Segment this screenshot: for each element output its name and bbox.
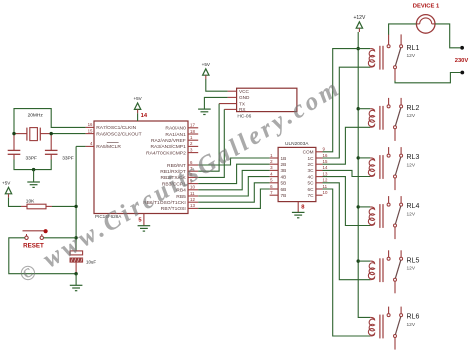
wire 3C to RL3 coil xyxy=(323,170,371,176)
relay RL3 12V xyxy=(368,147,419,190)
wire U1 RB to U2 inputs xyxy=(198,158,269,208)
power +5V U1 pin14 xyxy=(133,96,147,121)
relay RL6 12V xyxy=(368,307,419,350)
switch RESET xyxy=(23,229,48,250)
svg-text:HC-06: HC-06 xyxy=(237,114,251,120)
resistor R1 10K xyxy=(21,199,52,209)
svg-text:RA3/AN3/CMP1: RA3/AN3/CMP1 xyxy=(150,144,186,150)
lamp DEVICE 1 xyxy=(413,4,440,34)
svg-text:RL2: RL2 xyxy=(407,105,420,112)
svg-text:15: 15 xyxy=(88,128,93,133)
svg-text:VCC: VCC xyxy=(239,89,250,94)
watermark xyxy=(14,74,347,289)
node OSC junctions xyxy=(12,132,53,135)
wire R1 to MCLR column xyxy=(52,205,76,207)
svg-text:33PF: 33PF xyxy=(26,155,38,161)
wire RESET left loop xyxy=(9,238,76,274)
svg-text:6B: 6B xyxy=(281,187,287,192)
wire pin4 MCLR xyxy=(76,145,86,147)
wire OSC1 loop to pin16 xyxy=(14,109,86,134)
wire 4C to RL4 coil xyxy=(323,177,371,226)
svg-text:12V: 12V xyxy=(407,162,416,168)
ground crystal xyxy=(27,170,40,188)
node 230V terminals xyxy=(455,46,469,75)
svg-text:5C: 5C xyxy=(308,181,315,186)
wire lamp to RL1 NO contact xyxy=(389,24,417,35)
svg-text:12V: 12V xyxy=(407,211,416,217)
wire +12V rail xyxy=(357,32,371,317)
svg-text:RL4: RL4 xyxy=(407,203,420,210)
svg-text:+5V: +5V xyxy=(2,181,11,186)
svg-text:3: 3 xyxy=(270,165,273,170)
svg-text:3B: 3B xyxy=(281,168,287,173)
svg-text:5B: 5B xyxy=(281,181,287,186)
svg-text:4: 4 xyxy=(90,141,93,146)
svg-text:TX: TX xyxy=(239,101,246,106)
wire caps to ground rail xyxy=(14,160,51,172)
svg-text:RA4/T0CKI/CMP2: RA4/T0CKI/CMP2 xyxy=(146,150,186,156)
svg-text:12: 12 xyxy=(323,178,328,183)
svg-text:20MHz: 20MHz xyxy=(28,113,44,119)
relay RL5 12V xyxy=(368,250,419,293)
svg-text:2C: 2C xyxy=(308,162,315,167)
svg-text:RA5/MCLR: RA5/MCLR xyxy=(96,144,121,150)
wire MCLR column xyxy=(74,146,77,251)
svg-text:RL1: RL1 xyxy=(407,45,420,52)
svg-text:1: 1 xyxy=(270,153,273,158)
svg-text:6: 6 xyxy=(270,184,273,189)
svg-text:GND: GND xyxy=(239,95,250,100)
relay RL4 12V xyxy=(368,196,419,239)
svg-text:DEVICE 1: DEVICE 1 xyxy=(413,4,440,10)
wire TX to RB1 xyxy=(198,104,219,172)
wire 5C to RL5 coil xyxy=(323,183,371,280)
power +5V MCLR xyxy=(2,181,12,198)
ground U1 pin5 xyxy=(138,214,151,232)
ground HC-06 xyxy=(198,97,228,114)
op-amp U2 ULN2003A xyxy=(270,141,328,202)
svg-text:RL6: RL6 xyxy=(407,314,420,321)
wire RL5 coil top xyxy=(358,260,370,262)
wire COM to +12V xyxy=(323,49,371,152)
wire RL4 coil top xyxy=(358,206,370,208)
svg-text:10K: 10K xyxy=(26,199,35,205)
U1 left pins xyxy=(86,122,142,150)
module U3 HC-06 xyxy=(219,88,297,119)
svg-text:RX: RX xyxy=(239,107,246,112)
svg-text:12: 12 xyxy=(190,197,195,202)
power +12V xyxy=(353,15,365,32)
svg-text:2: 2 xyxy=(190,141,193,146)
svg-text:3: 3 xyxy=(190,147,193,152)
svg-text:12V: 12V xyxy=(407,113,416,119)
capacitor C3 10uF xyxy=(70,251,96,274)
svg-text:11: 11 xyxy=(190,191,195,196)
svg-text:+12V: +12V xyxy=(353,15,365,21)
svg-text:9: 9 xyxy=(323,147,326,152)
wire RL3 coil top xyxy=(358,157,370,159)
svg-text:2: 2 xyxy=(270,159,273,164)
relay RL1 12V xyxy=(368,34,419,80)
svg-text:12V: 12V xyxy=(407,266,416,272)
svg-text:RL3: RL3 xyxy=(407,154,420,161)
svg-text:1C: 1C xyxy=(308,156,315,161)
svg-text:4B: 4B xyxy=(281,174,287,179)
svg-text:14: 14 xyxy=(141,113,148,119)
svg-text:+5V: +5V xyxy=(202,62,211,67)
svg-text:6C: 6C xyxy=(308,187,315,192)
svg-text:33PF: 33PF xyxy=(62,155,74,161)
capacitor C2 33PF xyxy=(45,134,74,162)
wire +5V to R1 xyxy=(9,198,22,207)
svg-text:+5V: +5V xyxy=(133,96,142,101)
wire 2C to RL2 coil xyxy=(323,127,371,164)
svg-text:5: 5 xyxy=(270,178,273,183)
svg-text:7C: 7C xyxy=(308,193,315,198)
wire 6C to RL6 coil xyxy=(323,189,371,336)
svg-text:4C: 4C xyxy=(308,174,315,179)
svg-text:3C: 3C xyxy=(308,168,315,173)
svg-text:RA7/OSC1/CLKIN: RA7/OSC1/CLKIN xyxy=(96,125,136,131)
ground U2 pin8 xyxy=(292,202,305,218)
node C3 bottom xyxy=(74,272,77,275)
wire RESET right xyxy=(44,237,77,239)
wire RL2 coil top xyxy=(358,108,370,110)
ground RESET/C3 xyxy=(70,274,83,291)
svg-text:2B: 2B xyxy=(281,162,287,167)
svg-text:RA1/AN1: RA1/AN1 xyxy=(165,132,186,138)
svg-text:RA6/OSC2/CLKOUT: RA6/OSC2/CLKOUT xyxy=(96,131,141,137)
capacitor C1 33PF xyxy=(8,134,37,162)
svg-text:RA0/AN0: RA0/AN0 xyxy=(165,126,186,132)
svg-text:13: 13 xyxy=(190,203,195,208)
svg-text:230V: 230V xyxy=(455,58,469,64)
svg-text:RL5: RL5 xyxy=(407,257,420,264)
U1 right pins xyxy=(143,123,198,213)
svg-text:15: 15 xyxy=(323,159,328,164)
svg-text:ULN2003A: ULN2003A xyxy=(285,141,309,147)
svg-text:1: 1 xyxy=(190,135,193,140)
op-amp U1 PIC16F628A box xyxy=(94,121,188,219)
crystal X1 20MHz xyxy=(14,113,51,141)
svg-text:COM: COM xyxy=(303,150,314,155)
svg-text:RB7/T1OSI: RB7/T1OSI xyxy=(161,206,186,212)
svg-text:4: 4 xyxy=(270,171,273,176)
svg-text:1B: 1B xyxy=(281,156,287,161)
svg-text:13: 13 xyxy=(323,171,328,176)
wire RX to RB2 xyxy=(198,109,224,177)
svg-text:16: 16 xyxy=(323,153,328,158)
svg-text:18: 18 xyxy=(190,129,195,134)
svg-text:17: 17 xyxy=(190,123,195,128)
wire OSC2 to pin15 xyxy=(51,133,85,135)
svg-text:10: 10 xyxy=(323,190,328,195)
svg-text:16: 16 xyxy=(88,122,93,127)
power +5V HC-06 xyxy=(202,62,228,91)
svg-text:11: 11 xyxy=(323,184,328,189)
wire RL1 common to 230V bottom xyxy=(395,73,460,83)
svg-text:12V: 12V xyxy=(407,322,416,328)
svg-text:10uF: 10uF xyxy=(86,259,96,264)
svg-text:14: 14 xyxy=(323,165,328,170)
svg-text:RA2/AN2/VREF: RA2/AN2/VREF xyxy=(151,138,186,144)
svg-text:12V: 12V xyxy=(407,53,416,59)
svg-text:8: 8 xyxy=(301,205,305,211)
wire 1C to RL1 coil xyxy=(323,67,371,158)
svg-text:7B: 7B xyxy=(281,193,287,198)
relay RL2 12V xyxy=(368,98,419,141)
wire lamp to 230V top xyxy=(435,24,460,48)
svg-text:7: 7 xyxy=(270,190,273,195)
